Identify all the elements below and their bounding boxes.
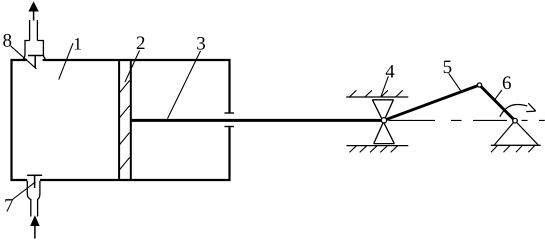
svg-text:2: 2 (136, 33, 146, 54)
pivot 6 ground line (491, 144, 541, 146)
joint pin C fixed pivot (513, 118, 518, 123)
leader line 6 (495, 90, 502, 100)
cylinder 1 bottom wall (11, 179, 231, 181)
svg-text:4: 4 (385, 61, 395, 82)
joint pin B link5-link6 (477, 83, 481, 87)
guide 4 lower ground line (347, 145, 409, 147)
guide 4 lower ground hatching (349, 146, 397, 153)
leader line 3 (168, 51, 201, 119)
guide 4 upper ground line (346, 96, 408, 98)
piston rod 3 (131, 119, 384, 122)
svg-text:6: 6 (502, 73, 512, 94)
piston 2 right face (130, 60, 132, 180)
cylinder 1 left wall (10, 59, 12, 181)
leader line 1 (59, 43, 73, 79)
pivot 6 ground hatching (491, 146, 535, 153)
svg-text:3: 3 (196, 34, 206, 55)
svg-text:8: 8 (3, 30, 13, 51)
rotation arrow head (526, 103, 536, 111)
leader line 4 (381, 76, 388, 96)
port 8 pipe (30, 20, 38, 41)
port 7 seat bar (27, 174, 42, 176)
port 7 seat stem (34, 175, 36, 188)
link 5 (384, 85, 480, 120)
port 7 arrow head (31, 217, 39, 226)
svg-text:7: 7 (4, 196, 14, 217)
cylinder 1 top wall (11, 59, 231, 61)
port 8 seat bar (28, 55, 43, 57)
rod gland tick top (225, 112, 235, 114)
joint pin A slider pivot (381, 118, 386, 123)
rod gland tick bottom (225, 126, 235, 128)
centerline axis (389, 119, 545, 121)
piston 2 left face (118, 60, 120, 180)
port 7 body outline (27, 181, 40, 217)
port 8 seat stem (34, 56, 36, 69)
leader line 8 (11, 46, 37, 69)
svg-text:5: 5 (443, 57, 453, 78)
guide 4 upper ground hatching (349, 90, 402, 97)
leader line 2 (125, 50, 140, 82)
rotation arrow arc (500, 104, 528, 116)
guide 4 bowtie slider (372, 100, 394, 144)
leader line 5 (449, 73, 461, 90)
link 6 crank (480, 85, 516, 121)
piston 2 hatching (119, 81, 129, 171)
port 7 arrow shaft (34, 225, 36, 239)
port 8 body outline (24, 41, 45, 61)
cylinder 1 right wall (228, 59, 230, 181)
port 8 arrow shaft (33, 10, 35, 21)
port 8 arrow head (29, 3, 38, 12)
leader line 7 (13, 182, 36, 200)
svg-text:1: 1 (73, 34, 82, 54)
pivot 6 support triangle (494, 121, 538, 145)
